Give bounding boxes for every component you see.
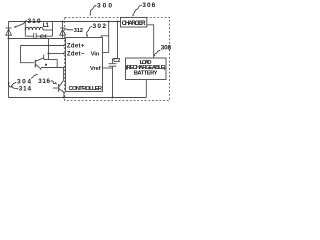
- Zdet- wire: [49, 53, 63, 55]
- controller box 302: [66, 38, 103, 92]
- transistor Q2 base bar: [58, 84, 60, 92]
- leader arrow 300: [90, 5, 96, 13]
- wire down-left to Q1 base: [21, 46, 35, 63]
- load bottom pin wire: [145, 80, 147, 98]
- capacitor C2 upper lead: [112, 59, 114, 64]
- diode D1: [6, 29, 12, 35]
- charger output wire: [147, 25, 154, 58]
- arrowhead Zdet+ pin: [63, 45, 65, 47]
- svg-text:BATTERY: BATTERY: [134, 71, 158, 77]
- svg-text:Vref: Vref: [90, 66, 101, 72]
- node dot at C2 riser: [117, 21, 119, 23]
- inductor L1 coil: [25, 27, 43, 30]
- diode D2 cathode bar: [60, 27, 65, 29]
- svg-text:Zdet+: Zdet+: [67, 43, 85, 49]
- leader dash 312: [65, 29, 73, 30]
- bottom wire: [9, 97, 147, 99]
- svg-text:CONTROLLER: CONTROLLER: [69, 86, 103, 92]
- svg-text:306: 306: [142, 2, 155, 9]
- Zdet+ wire: [21, 45, 63, 47]
- wire Q1 to controller: [41, 67, 63, 69]
- dashed receiver boundary box 300: [65, 17, 170, 100]
- capacitor C2 lower lead: [112, 66, 114, 97]
- transistor Q1 emitter: [36, 65, 42, 70]
- diode D2: [60, 29, 66, 35]
- left rail wire: [8, 22, 10, 98]
- leader arrow 304: [9, 82, 17, 87]
- arrowhead Q2 emitter: [62, 91, 64, 93]
- emitter foot wire: [63, 92, 65, 98]
- node dot C2/bottom wire: [112, 97, 114, 99]
- Vin pin wire: [103, 52, 109, 54]
- arrowhead Zdet- pin: [63, 53, 65, 55]
- C2 jog wire: [113, 58, 118, 60]
- Vref pin wire: [103, 67, 113, 69]
- wire over Q1: [44, 59, 58, 61]
- leader arrow 310: [16, 21, 27, 27]
- node dot left rail / tank bottom: [8, 38, 10, 40]
- capacitor C2 plates: [109, 64, 117, 66]
- transistor Q2 emitter: [59, 89, 64, 92]
- stray squiggle above 304: [31, 74, 38, 78]
- svg-text:312: 312: [74, 28, 83, 34]
- svg-text:L1: L1: [43, 23, 50, 29]
- load box 308: [126, 58, 167, 80]
- svg-text:Zdet−: Zdet−: [67, 51, 85, 57]
- svg-text:CHARGER: CHARGER: [122, 20, 147, 27]
- capacitor C1 plates: [34, 33, 37, 39]
- node dot above wire: [45, 64, 47, 66]
- charger box 306: [121, 17, 147, 27]
- capacitor C1 wires: [25, 35, 52, 37]
- svg-text:314: 314: [19, 85, 32, 92]
- svg-text:302: 302: [93, 23, 107, 30]
- leader arrow 302: [87, 27, 92, 36]
- svg-text:310: 310: [28, 18, 41, 25]
- svg-text:Vin: Vin: [91, 52, 100, 58]
- drop to output wire: [56, 60, 58, 68]
- node dot at rectifier rail: [62, 21, 64, 23]
- tank stub right: [52, 22, 54, 37]
- svg-text:316: 316: [38, 78, 50, 85]
- Vin riser wire: [108, 22, 110, 53]
- riser to sense wires: [48, 39, 50, 60]
- C2 riser wire: [117, 22, 119, 59]
- svg-text:C1: C1: [40, 34, 47, 40]
- leader arrow 308: [155, 50, 161, 55]
- node dot Q2/bottom wire: [63, 97, 65, 99]
- coil to stub wire: [43, 29, 52, 31]
- top wire: [9, 21, 121, 23]
- svg-text:308: 308: [161, 44, 172, 51]
- arrowhead controller pin 3: [63, 67, 65, 69]
- leader elbow 314: [13, 87, 19, 88]
- transistor Q1 base bar: [34, 60, 36, 68]
- stub wire above controller corner: [101, 36, 109, 38]
- arrowhead Q1 emitter: [40, 68, 42, 70]
- transistor Q2 collector: [59, 81, 63, 87]
- svg-text:C2: C2: [113, 58, 120, 64]
- node dot at Vin riser: [108, 21, 110, 23]
- collector stub up: [43, 55, 45, 60]
- diode D1 cathode bar: [6, 27, 12, 29]
- transistor Q2 base lead: [53, 87, 58, 89]
- collector riser to pin wire: [62, 68, 64, 81]
- transistor Q1 collector: [36, 58, 44, 61]
- tank bottom wire: [9, 38, 66, 40]
- node dot riser/Zdet-: [48, 53, 50, 55]
- rectifier rail wire: [62, 22, 64, 39]
- leader arrow 306: [133, 5, 141, 14]
- leader arrow 316: [51, 81, 56, 84]
- node dot riser/Zdet+: [48, 45, 50, 47]
- tank stub left: [24, 22, 26, 37]
- svg-text:300: 300: [97, 2, 112, 9]
